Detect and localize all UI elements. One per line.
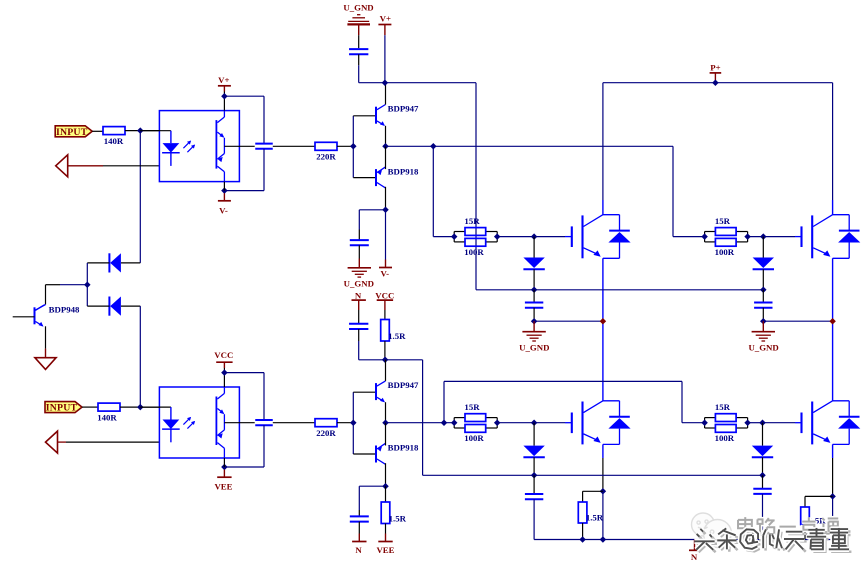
node V2 emitter: [829, 318, 836, 325]
wire: [583, 490, 603, 492]
gate resistors 15R/100R (lower-right): [704, 418, 706, 428]
wire: [533, 475, 535, 494]
resistor R8 1.5R: [801, 507, 810, 525]
wire: [475, 83, 477, 290]
svg-text:100R: 100R: [715, 247, 735, 257]
svg-text:U_GND: U_GND: [748, 343, 778, 353]
wire: [476, 289, 763, 291]
wire: [359, 209, 385, 211]
capacitor C7: [255, 419, 273, 421]
power N (on rail): [694, 540, 696, 551]
node V+ rail: [382, 79, 389, 86]
capacitor C5 (upper-right): [754, 302, 772, 304]
node zener tap (upper-left): [531, 233, 538, 240]
wire: [263, 96, 265, 143]
wire: [386, 422, 455, 424]
port arrow (upper return): [56, 155, 68, 177]
wire: [58, 441, 67, 443]
wire: [223, 182, 225, 191]
wire: [358, 341, 360, 360]
svg-text:BDP948: BDP948: [49, 304, 80, 314]
zener D6 (lower-right): [752, 446, 773, 457]
IGBT V4 (lower-right): [800, 413, 802, 434]
wire: [223, 368, 225, 387]
wire: [337, 422, 353, 424]
wire: [386, 145, 674, 147]
node zener tap (lower-right): [759, 419, 766, 426]
node mid rail left: [531, 287, 538, 294]
wire: [384, 310, 386, 320]
svg-text:INPUT: INPUT: [46, 403, 78, 414]
node V4 emitter: [829, 493, 836, 500]
transistor Q4 BDP947: [375, 383, 377, 400]
wire: [602, 491, 604, 539]
svg-text:BDP947: BDP947: [388, 380, 419, 390]
net label INPUT (upper): [55, 126, 92, 137]
transistor Q3 BDP948: [35, 305, 45, 311]
wire: [337, 145, 353, 147]
resistor R1 140R: [103, 127, 125, 135]
wire: [273, 422, 315, 424]
node after R2: [137, 404, 144, 411]
node V3 emitter: [600, 488, 607, 495]
wire: [352, 116, 354, 178]
transistor Q1 BDP947: [375, 107, 377, 124]
wire: [805, 539, 833, 541]
gate resistors 15R/100R (lower-left): [453, 418, 455, 428]
svg-text:N: N: [355, 545, 362, 555]
capacitor C9 (lower-left): [525, 493, 543, 495]
wire: [603, 82, 833, 84]
wire: [672, 146, 674, 236]
svg-text:140R: 140R: [97, 412, 117, 422]
wire: [533, 290, 535, 302]
svg-text:100R: 100R: [715, 433, 735, 443]
node branch (lower): [441, 419, 448, 426]
wire: [804, 525, 806, 540]
wire: [358, 329, 360, 341]
wire: [497, 422, 565, 424]
ground U_GND (upper-right): [762, 321, 764, 331]
node emitter rail left: [531, 318, 538, 325]
capacitor C10 (lower-right): [753, 488, 771, 490]
svg-text:N: N: [355, 290, 362, 300]
wire: [358, 522, 360, 534]
wire: [832, 258, 834, 400]
svg-text:P+: P+: [710, 63, 720, 73]
wire: [120, 406, 159, 408]
svg-text:1.5R: 1.5R: [389, 514, 407, 524]
wire: [223, 458, 225, 467]
wire: [747, 422, 763, 424]
wire: [358, 310, 360, 324]
wire: [224, 190, 264, 192]
zener D5 (lower-left): [523, 446, 544, 457]
wire: [92, 130, 103, 132]
node V3 on N rail: [600, 536, 607, 543]
resistor R2 140R: [98, 403, 120, 411]
wire: [832, 496, 834, 539]
wire: [762, 308, 764, 322]
port arrow (lower return): [46, 431, 58, 453]
wire: [358, 65, 360, 82]
svg-text:100R: 100R: [464, 433, 484, 443]
svg-text:N: N: [691, 552, 698, 562]
node V1 emitter: [600, 318, 607, 325]
node zener tap (lower-left): [531, 419, 538, 426]
node U2 emitter: [221, 464, 228, 471]
power VEE (U2): [223, 470, 225, 478]
wire: [762, 423, 764, 446]
wire: [602, 258, 604, 400]
wire: [533, 269, 535, 290]
wire: [432, 146, 434, 236]
svg-text:BDP918: BDP918: [388, 166, 419, 176]
svg-text:15R: 15R: [715, 216, 731, 226]
wire: [832, 444, 834, 458]
wire: [602, 83, 604, 200]
optocoupler U2: [159, 387, 239, 458]
wire: [534, 539, 762, 541]
wire: [763, 320, 832, 322]
wire: [60, 284, 87, 286]
svg-text:VCC: VCC: [375, 290, 394, 300]
capacitor C6: [349, 323, 368, 325]
capacitor C8: [350, 515, 369, 517]
capacitor C3: [349, 48, 368, 50]
wire: [533, 423, 535, 446]
wire: [762, 494, 764, 540]
wire: [358, 230, 360, 241]
power V- (U1): [223, 193, 225, 201]
svg-text:140R: 140R: [104, 136, 124, 146]
wire: [602, 444, 604, 458]
wire: [352, 392, 354, 454]
resistor R7 1.5R: [578, 502, 587, 523]
node P+ rail: [712, 79, 719, 86]
gate resistors 15R/100R (upper-right): [704, 232, 706, 242]
node base rail (lower): [350, 419, 357, 426]
transistor Q5 BDP918: [375, 446, 377, 463]
wire: [13, 316, 35, 318]
wire: [385, 187, 387, 210]
wire: [533, 499, 535, 539]
svg-text:VCC: VCC: [214, 350, 233, 360]
svg-text:15R: 15R: [715, 402, 731, 412]
IGBT V3 (lower-left): [571, 413, 573, 434]
svg-text:V+: V+: [380, 14, 391, 24]
power VEE (lower driver): [385, 534, 387, 542]
IGBT V1 (upper-left): [571, 226, 573, 247]
diode D1: [121, 262, 140, 264]
wire: [358, 35, 360, 48]
capacitor C2: [350, 239, 369, 241]
svg-text:U_GND: U_GND: [344, 279, 374, 289]
diode D2: [121, 305, 140, 307]
wire: [832, 83, 834, 200]
wire: [385, 423, 387, 446]
svg-text:15R: 15R: [464, 216, 480, 226]
resistor R6 1.5R: [381, 502, 390, 524]
node VCC rail: [382, 357, 389, 364]
svg-text:U_GND: U_GND: [519, 343, 549, 353]
wire: [353, 453, 376, 455]
resistor R5 220R: [315, 419, 337, 427]
svg-text:BDP947: BDP947: [388, 104, 419, 114]
wire: [103, 165, 159, 167]
wire: [385, 463, 387, 486]
wire: [263, 425, 265, 467]
wire: [384, 341, 386, 360]
wire: [762, 457, 764, 475]
IGBT V2 (upper-right): [800, 226, 802, 247]
wire: [263, 149, 265, 191]
wire: [762, 269, 764, 290]
zener D4 (upper-right): [753, 258, 774, 269]
wire: [762, 290, 764, 302]
wire: [582, 523, 584, 540]
wire: [224, 95, 264, 97]
wire: [224, 372, 264, 374]
zener D3 (upper-left): [523, 258, 544, 269]
node U1 emitter: [221, 187, 228, 194]
optocoupler U1: [159, 111, 239, 182]
watermark: [745, 517, 753, 533]
node lower rail right: [759, 472, 766, 479]
wire: [385, 402, 387, 423]
node lower rail left: [531, 472, 538, 479]
wire: [45, 285, 47, 305]
wire: [385, 486, 387, 502]
wire: [533, 237, 535, 258]
wire: [385, 146, 387, 169]
node Q2 collector: [382, 207, 389, 214]
wire: [533, 308, 535, 322]
svg-text:1.5R: 1.5R: [388, 331, 406, 341]
wire: [353, 115, 376, 117]
ground U_GND (driver upper): [358, 259, 360, 268]
wire: [385, 210, 387, 260]
node emitter rail right: [760, 318, 767, 325]
ground (Q3 emitter): [45, 349, 47, 358]
svg-text:VEE: VEE: [376, 545, 394, 555]
wire: [66, 441, 159, 443]
resistor R4 1.5R: [381, 320, 390, 342]
power N (lower driver): [358, 534, 360, 542]
wire: [223, 92, 225, 111]
wire: [263, 373, 265, 420]
node drive split (upper): [430, 143, 437, 150]
wire: [139, 131, 141, 263]
wire: [358, 245, 360, 258]
wire: [82, 406, 98, 408]
svg-text:100R: 100R: [464, 247, 484, 257]
ground U_GND (upper-left): [533, 321, 535, 331]
wire: [534, 320, 603, 322]
node after R1: [137, 127, 144, 134]
node mid rail right: [760, 287, 767, 294]
resistor R3 220R: [315, 142, 337, 150]
gate resistors 15R/100R (upper-left): [453, 232, 455, 242]
wire: [747, 236, 764, 238]
node zener tap (upper-right): [760, 233, 767, 240]
svg-text:VEE: VEE: [214, 482, 232, 492]
node base rail (upper): [350, 143, 357, 150]
wire: [384, 35, 386, 82]
net label INPUT (lower): [45, 402, 82, 413]
node driver output (lower): [382, 419, 389, 426]
wire: [353, 391, 376, 393]
wire: [805, 495, 833, 497]
svg-text:V-: V-: [219, 205, 228, 215]
transistor Q2 BDP918: [375, 169, 377, 186]
node R7 on N rail: [579, 536, 586, 543]
wire: [497, 236, 565, 238]
wire: [353, 177, 376, 179]
svg-text:220R: 220R: [316, 152, 336, 162]
svg-text:U_GND: U_GND: [343, 3, 373, 13]
wire: [358, 510, 360, 516]
wire: [45, 326, 47, 348]
wire: [385, 359, 423, 361]
node diode tie: [84, 281, 91, 288]
wire: [762, 237, 764, 258]
node U2 collector: [221, 369, 228, 376]
wire: [358, 54, 360, 65]
wire: [385, 360, 387, 381]
capacitor C4 (upper-left): [525, 302, 543, 304]
wire: [762, 475, 764, 488]
svg-text:1.5R: 1.5R: [586, 513, 604, 523]
svg-text:BDP918: BDP918: [388, 443, 419, 453]
wire: [385, 524, 387, 534]
svg-text:V-: V-: [380, 269, 389, 279]
wire: [602, 200, 604, 215]
svg-text:INPUT: INPUT: [56, 127, 88, 138]
wire: [359, 485, 385, 487]
wire: [385, 126, 387, 147]
svg-text:V+: V+: [218, 75, 229, 85]
wire: [86, 263, 88, 306]
wire: [423, 474, 763, 476]
wire: [68, 165, 103, 167]
wire: [385, 83, 387, 105]
wire: [139, 306, 141, 407]
power V- (driver): [385, 260, 387, 268]
wire: [533, 457, 535, 475]
wire: [224, 466, 264, 468]
wire: [273, 145, 315, 147]
node Q5 collector: [382, 483, 389, 490]
node U1 collector: [221, 93, 228, 100]
svg-text:15R: 15R: [464, 402, 480, 412]
svg-text:220R: 220R: [316, 428, 336, 438]
wire: [125, 130, 159, 132]
capacitor C1: [255, 143, 273, 145]
wire: [832, 200, 834, 215]
wire: [443, 381, 445, 422]
node driver output (upper): [382, 143, 389, 150]
